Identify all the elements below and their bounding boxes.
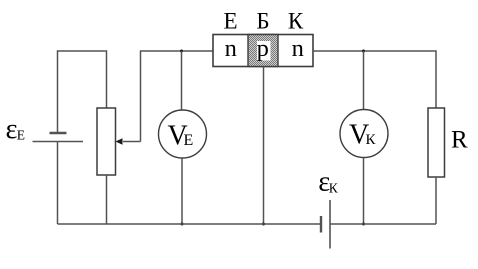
wire: bottom rail right section — [330, 223, 436, 225]
label VK — [349, 120, 377, 151]
svg-text:К: К — [329, 180, 339, 195]
svg-text:Е: Е — [223, 9, 237, 34]
svg-text:E: E — [17, 128, 25, 143]
base region p (hatched) — [248, 35, 278, 67]
svg-text:К: К — [366, 132, 377, 148]
potentiometer — [97, 108, 116, 175]
label VE — [168, 121, 194, 152]
battery εE — [33, 133, 84, 142]
wire: voltmeter VK bottom lead — [363, 158, 365, 225]
transistor body outline — [213, 35, 313, 67]
potentiometer wiper arrow — [116, 138, 141, 144]
node: junction VK bottom on rail — [362, 223, 365, 226]
svg-text:n: n — [225, 35, 237, 62]
svg-text:R: R — [451, 127, 468, 154]
svg-text:n: n — [292, 35, 304, 62]
label εK — [318, 166, 339, 197]
svg-text:E: E — [184, 132, 194, 149]
node: junction VE bottom on rail — [181, 223, 184, 226]
node: junction base-rail — [262, 223, 265, 226]
label εE — [6, 114, 26, 145]
wire: wiper up and over to emitter terminal — [141, 51, 214, 142]
wire: resistor R bottom lead — [435, 177, 437, 224]
resistor R — [428, 108, 445, 177]
wire: collector terminal over to resistor R top — [313, 51, 436, 108]
voltmeter VK — [340, 110, 388, 158]
wire: base lead down to bottom rail — [263, 67, 265, 225]
wire: battery εE positive lead up and over to potentiometer top — [58, 51, 107, 133]
voltmeter VE — [159, 110, 207, 158]
wire: bottom rail left section — [58, 223, 322, 225]
svg-text:Б: Б — [256, 9, 269, 34]
wire: voltmeter VK top lead — [363, 51, 365, 111]
wire: voltmeter VE top lead — [181, 51, 183, 111]
svg-text:p: p — [257, 35, 269, 62]
wire: voltmeter VE bottom lead — [181, 158, 183, 224]
node: junction wiper-rail / VE top — [180, 50, 183, 53]
svg-text:ε: ε — [6, 114, 18, 145]
node: junction VK top — [362, 50, 365, 53]
wire: battery εE negative lead down to bottom rail — [57, 142, 59, 225]
svg-text:К: К — [288, 9, 304, 34]
white backing for p letter — [257, 41, 271, 61]
battery εK — [321, 200, 330, 249]
wire: potentiometer bottom lead — [106, 175, 108, 224]
